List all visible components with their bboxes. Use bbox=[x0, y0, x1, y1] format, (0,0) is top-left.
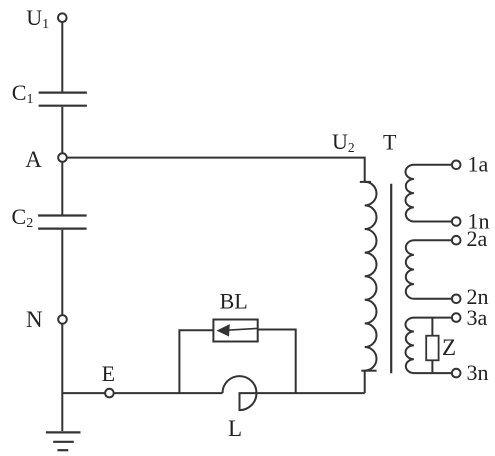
damper Z box bbox=[426, 336, 438, 361]
terminal 1a bbox=[452, 161, 461, 170]
wire ground column to terminal E bbox=[62, 392, 105, 394]
svg-text:3a: 3a bbox=[467, 305, 488, 330]
arrester BL box bbox=[213, 320, 257, 342]
inductor L (loop) bbox=[223, 376, 257, 410]
node A bbox=[58, 153, 67, 162]
wire BL branch right leg bbox=[258, 330, 296, 394]
wire BL branch left leg bbox=[179, 330, 213, 393]
svg-text:E: E bbox=[102, 361, 115, 386]
svg-text:C2: C2 bbox=[12, 204, 34, 231]
svg-text:L: L bbox=[228, 416, 242, 441]
transformer T core bbox=[390, 184, 392, 374]
svg-text:1a: 1a bbox=[468, 152, 489, 177]
wire node A to C2 bbox=[61, 162, 63, 215]
transformer T primary winding bottom tick bbox=[361, 370, 376, 372]
node N bbox=[58, 315, 67, 324]
transformer secondary winding 2 bbox=[406, 240, 452, 299]
svg-text:Z: Z bbox=[442, 335, 456, 360]
capacitor C1 bbox=[39, 93, 87, 106]
svg-text:U1: U1 bbox=[26, 5, 49, 32]
terminal 3n bbox=[452, 369, 461, 378]
terminal 2n bbox=[452, 295, 461, 304]
terminal U1 bbox=[58, 13, 67, 22]
capacitor C2 bbox=[38, 216, 87, 229]
wire Z bottom connector bbox=[431, 360, 433, 373]
wire inductor L to transformer primary bottom bbox=[257, 392, 365, 394]
svg-text:N: N bbox=[26, 307, 43, 332]
wire node N to ground bbox=[61, 324, 63, 431]
transformer T primary winding bbox=[365, 182, 377, 371]
svg-text:U2: U2 bbox=[332, 129, 355, 155]
svg-text:BL: BL bbox=[220, 288, 248, 313]
svg-text:T: T bbox=[383, 130, 397, 155]
wire C1 to node A bbox=[61, 107, 63, 154]
wire primary winding bottom lead bbox=[364, 371, 366, 394]
transformer secondary winding 1 bbox=[406, 165, 452, 222]
terminal E bbox=[105, 389, 114, 398]
wire node A to transformer primary (U2 lead) bbox=[67, 158, 365, 182]
wire C2 to node N bbox=[61, 230, 63, 315]
wire Z top connector bbox=[431, 318, 433, 336]
svg-text:3n: 3n bbox=[467, 360, 489, 385]
svg-text:A: A bbox=[25, 147, 42, 172]
svg-text:C1: C1 bbox=[12, 80, 34, 107]
terminal 3a bbox=[452, 313, 461, 322]
svg-text:2a: 2a bbox=[467, 226, 488, 251]
terminal 2a bbox=[452, 236, 461, 245]
transformer T primary winding top tick bbox=[360, 181, 371, 183]
ground bbox=[46, 432, 81, 450]
wire U1 terminal to C1 bbox=[61, 22, 63, 92]
wire terminal E to inductor L bbox=[114, 392, 223, 394]
transformer secondary winding 3 bbox=[405, 318, 451, 374]
arrester BL arrow bbox=[217, 324, 258, 336]
terminal 1n bbox=[452, 217, 461, 226]
